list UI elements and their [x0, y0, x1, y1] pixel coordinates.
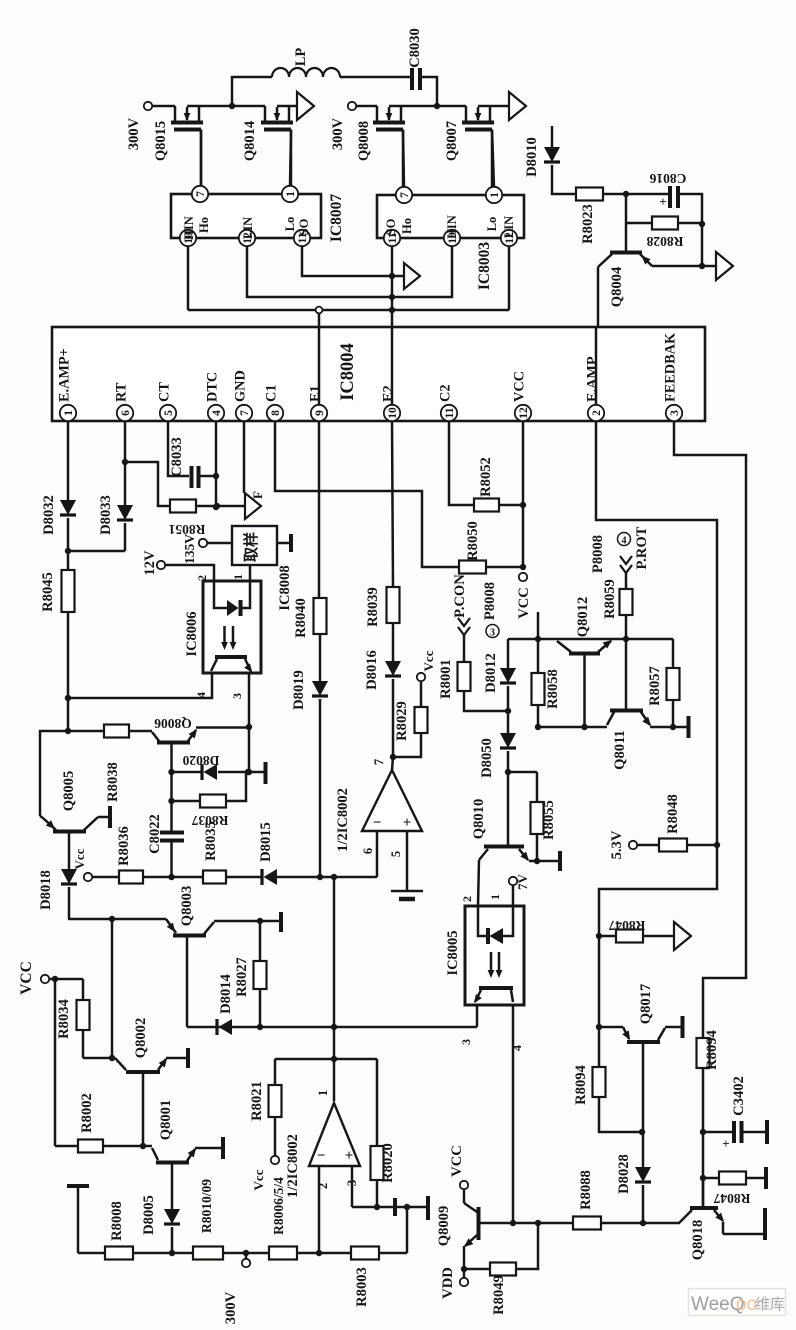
wire [356, 105, 377, 108]
svg-text:R8010/09: R8010/09 [199, 1179, 214, 1233]
svg-text:4: 4 [194, 692, 208, 698]
wire [143, 876, 203, 879]
wire [82, 1030, 85, 1058]
wire [340, 76, 411, 79]
wire [40, 816, 43, 818]
terminal Vcc (op-amp1) [417, 650, 436, 681]
svg-text:IC8006: IC8006 [184, 611, 200, 656]
node [510, 1220, 516, 1226]
node [535, 724, 541, 730]
wire [512, 885, 515, 906]
wire [68, 887, 71, 919]
wire [643, 935, 674, 938]
pin 2 (E.AMP) of IC8004 [585, 356, 605, 421]
wire pin3 IC8005 [459, 1005, 477, 1045]
transistor Q8001 [152, 1100, 199, 1163]
wire [98, 816, 109, 819]
diode D8018 [38, 869, 77, 910]
ground bar [264, 762, 268, 784]
label Lo b [485, 217, 499, 232]
wire pin4 IC8005 [510, 1005, 524, 1223]
svg-text:SO: SO [297, 218, 311, 235]
pin 7 (Ho) of IC8007 [192, 186, 208, 202]
svg-text:R8058: R8058 [545, 669, 561, 709]
node [461, 1266, 467, 1272]
transistor Q8005 [43, 771, 98, 832]
svg-text:12V: 12V [142, 550, 158, 576]
resistor R8039 [365, 587, 400, 627]
wire gate Q8015 [200, 130, 203, 187]
wire [702, 1068, 705, 1207]
resistor R8010/09 [193, 1179, 223, 1260]
svg-text:Q8002: Q8002 [133, 1018, 149, 1059]
resistor R8021 [249, 1059, 282, 1121]
transistor Q8008 [356, 106, 405, 188]
wire op1 out [392, 757, 393, 770]
wire [277, 542, 290, 545]
ground bar [426, 1196, 430, 1220]
svg-text:R8047: R8047 [713, 1191, 750, 1206]
capacitor C3402 [703, 1076, 765, 1151]
wire [601, 1222, 680, 1225]
wire [247, 246, 390, 297]
wire [507, 639, 510, 668]
terminal VCC (Q8009) [449, 1145, 468, 1189]
resistor R8037 [172, 795, 229, 829]
svg-text:D8032: D8032 [41, 495, 57, 535]
svg-text:D8028: D8028 [616, 1154, 632, 1194]
label P8008-4 P.ROT [590, 526, 650, 573]
block 取样 (IC8008) [232, 526, 277, 565]
svg-text:D8014: D8014 [218, 973, 234, 1013]
ground bar [687, 716, 691, 738]
wire [172, 771, 202, 774]
wire [678, 222, 702, 225]
wire [319, 699, 322, 877]
node [109, 916, 115, 922]
wire [200, 475, 216, 478]
terminal 300V (bottom) [223, 1253, 250, 1324]
watermark WeeQoo [689, 1289, 786, 1316]
wire [352, 1206, 428, 1209]
resistor R8051 [168, 500, 205, 538]
svg-text:2: 2 [460, 896, 474, 902]
svg-text:D8012: D8012 [483, 653, 499, 693]
svg-text:R8094: R8094 [573, 1064, 589, 1104]
arrow out (node A side) [297, 92, 314, 120]
svg-text:oo: oo [736, 1294, 757, 1315]
pin 8 (C1) of IC8004 [264, 385, 284, 422]
svg-text:135V: 135V [182, 534, 197, 564]
wire [187, 105, 232, 108]
svg-text:4: 4 [622, 536, 627, 547]
svg-text:D8020: D8020 [182, 753, 219, 768]
svg-text:Q8010: Q8010 [471, 799, 487, 840]
svg-text:HIN: HIN [182, 216, 196, 240]
pin 6 (RT) of IC8004 [114, 382, 134, 421]
wire [392, 623, 395, 661]
svg-text:Q8008: Q8008 [356, 121, 372, 161]
svg-text:R8020: R8020 [380, 1143, 396, 1183]
transistor Q8006 [152, 716, 200, 743]
svg-text:CT: CT [157, 382, 173, 402]
label Ho [197, 217, 211, 233]
terminal 5.3V [609, 830, 637, 859]
wire [297, 1252, 351, 1255]
svg-text:3: 3 [669, 410, 681, 416]
wire [186, 937, 189, 1027]
svg-text:维库: 维库 [755, 1296, 785, 1313]
resistor R8008 [105, 1201, 133, 1259]
wire [507, 751, 510, 772]
node [109, 1055, 115, 1061]
svg-text:P.CON: P.CON [452, 574, 468, 618]
svg-text:−: − [373, 815, 382, 831]
svg-text:R8050: R8050 [465, 521, 481, 561]
ground bar (IC8008) [289, 534, 293, 552]
pin 7 (Ho) of IC8003 [396, 187, 412, 203]
wire [463, 635, 466, 662]
node [535, 636, 541, 642]
wire [538, 726, 607, 729]
svg-text:FEEDBAK: FEEDBAK [663, 332, 679, 402]
resistor R8023 [576, 188, 603, 244]
svg-text:E1: E1 [308, 385, 324, 402]
svg-text:VDD: VDD [440, 1267, 456, 1299]
pin 11 (SO) of IC8003 [384, 230, 400, 246]
node [714, 842, 720, 848]
wire pin9 down [318, 421, 321, 598]
wire [376, 1180, 379, 1207]
wire [333, 877, 336, 1101]
pin 4 (DTC) of IC8004 [205, 372, 225, 421]
chevrons P.CON [458, 618, 470, 635]
resistor R8027 [234, 921, 267, 997]
svg-text:VCC: VCC [516, 587, 532, 618]
resistor R8020 [371, 1059, 397, 1183]
transistor Q8004 [598, 253, 652, 308]
svg-text:R8028: R8028 [646, 234, 683, 249]
svg-text:Q8012: Q8012 [575, 597, 591, 638]
wire EAMP inside [595, 328, 598, 405]
svg-text:7: 7 [239, 410, 251, 416]
resistor R8055 [531, 772, 558, 840]
svg-text:P.ROT: P.ROT [634, 526, 650, 569]
svg-text:P8008: P8008 [590, 535, 606, 573]
node [246, 769, 252, 775]
wire [486, 566, 523, 569]
label Ho b [400, 218, 414, 234]
svg-text:−: − [317, 1148, 326, 1164]
wire [392, 679, 395, 757]
svg-text:1: 1 [489, 192, 501, 198]
svg-text:8: 8 [270, 410, 282, 416]
resistor R8038 [104, 725, 129, 802]
svg-text:1: 1 [316, 1090, 330, 1096]
wire [111, 919, 114, 1058]
label HIN [182, 216, 196, 240]
wire [67, 612, 70, 731]
svg-text:Q8011: Q8011 [612, 730, 628, 770]
terminal VCC (left) [18, 961, 49, 995]
ground cap (op1 plus) [391, 891, 423, 899]
svg-text:D8019: D8019 [291, 670, 307, 710]
resistor R8028 [646, 217, 683, 250]
svg-text:D8033: D8033 [98, 495, 114, 535]
svg-text:R8038: R8038 [105, 762, 121, 802]
LED inside IC8005 [478, 906, 513, 944]
wire [393, 733, 421, 757]
diode D8005 [141, 1195, 180, 1235]
pin 1 (Lo) of IC8003 [486, 187, 502, 203]
svg-text:取样: 取样 [242, 532, 260, 562]
svg-text:7V: 7V [515, 873, 530, 890]
diode D8010 [524, 137, 560, 177]
ground tee (rail left) [67, 1186, 89, 1253]
svg-text:IC8007: IC8007 [328, 194, 345, 242]
node [169, 1250, 175, 1256]
terminal VCC [516, 573, 532, 619]
wire [218, 771, 264, 774]
svg-text:10: 10 [387, 407, 399, 419]
wire pin3 down [674, 421, 746, 1038]
node [168, 798, 174, 804]
node [505, 769, 511, 775]
resistor R8059 [602, 579, 633, 619]
wire base Q8005 [68, 833, 71, 869]
svg-text:6: 6 [361, 848, 375, 854]
wire [508, 246, 511, 310]
svg-text:VCC: VCC [512, 371, 528, 402]
capacitor C8033 [169, 437, 199, 488]
wire [274, 1117, 277, 1156]
svg-text:P8008: P8008 [482, 582, 498, 620]
wire [536, 834, 539, 861]
svg-text:9: 9 [314, 410, 326, 416]
resistor R8040 [293, 598, 327, 638]
node [639, 1129, 645, 1135]
svg-text:SO: SO [384, 218, 398, 235]
wire [507, 686, 510, 733]
wire [226, 876, 261, 879]
wire op1 plus [406, 831, 409, 891]
transistor Q8012 [557, 597, 614, 727]
svg-text:R8094: R8094 [704, 1029, 720, 1069]
wire [508, 638, 673, 641]
svg-text:Vcc: Vcc [72, 848, 87, 869]
IC IC8004 body [52, 327, 705, 421]
svg-text:7: 7 [372, 759, 386, 765]
svg-text:C8022: C8022 [147, 814, 163, 854]
svg-text:Vcc: Vcc [251, 1169, 266, 1190]
wire E2 inside [391, 328, 394, 405]
wire [552, 165, 576, 194]
resistor R8034 [56, 979, 90, 1039]
wire [248, 727, 251, 772]
node [640, 1220, 646, 1226]
IC IC8007 body [171, 194, 345, 242]
terminal 12V [142, 550, 165, 576]
node [65, 695, 71, 701]
svg-text:Q8009: Q8009 [436, 1206, 452, 1247]
ground bar [765, 1120, 769, 1144]
pin 12 (LIN) of IC8007 [239, 230, 255, 246]
wire op2 minus [318, 1166, 321, 1253]
node [505, 708, 511, 714]
label Lo [283, 217, 297, 232]
svg-text:C2: C2 [438, 385, 454, 402]
wire [678, 194, 702, 266]
svg-text:R8088: R8088 [578, 1170, 594, 1210]
svg-text:+: + [722, 1136, 729, 1151]
label pin2 IC8006 [195, 575, 209, 581]
junction circle E1 [316, 307, 323, 314]
node B [434, 103, 440, 109]
wire base Q8006 [129, 730, 152, 733]
svg-text:E.AMP+: E.AMP+ [57, 348, 73, 402]
node [65, 548, 71, 554]
wire [207, 542, 232, 545]
label pins IC8005 [460, 894, 502, 902]
svg-text:5: 5 [163, 410, 175, 416]
svg-text:3: 3 [490, 628, 495, 639]
chevrons P.ROT [620, 556, 632, 573]
wire [195, 1147, 221, 1150]
wire [508, 771, 537, 774]
wire pin8 down [275, 421, 459, 567]
svg-text:5: 5 [389, 851, 403, 857]
svg-text:R8057: R8057 [647, 666, 663, 706]
wire pin11 down [449, 421, 474, 505]
wire pin6 down [124, 421, 127, 462]
wire [650, 726, 687, 729]
svg-text:C3402: C3402 [731, 1076, 747, 1116]
svg-text:HIN: HIN [445, 215, 459, 239]
resistor R8047 (protect) [599, 918, 645, 943]
diode D8014 [217, 973, 234, 1035]
svg-text:GND: GND [233, 370, 249, 402]
svg-text:D8010: D8010 [524, 137, 540, 177]
svg-text:Q8003: Q8003 [179, 886, 195, 927]
wire [232, 105, 265, 108]
wire [420, 77, 437, 106]
wire [166, 1057, 186, 1060]
svg-text:VCC: VCC [18, 961, 35, 995]
transistor Q8018 [679, 1208, 727, 1260]
svg-text:R8006/5/4: R8006/5/4 [271, 1177, 286, 1235]
node [670, 724, 676, 730]
wire [626, 222, 652, 225]
wire [277, 105, 297, 108]
node [168, 769, 174, 775]
svg-text:R8001: R8001 [438, 659, 454, 699]
node [331, 1056, 337, 1062]
wire [625, 573, 628, 589]
wire pin12 down [522, 421, 525, 567]
wire gate Q8014 [290, 130, 291, 187]
resistor R8029 [394, 701, 428, 741]
wire [420, 681, 423, 707]
svg-text:+: + [659, 194, 666, 209]
resistor R8001 [438, 659, 471, 699]
wire collector Q8006 down [170, 744, 173, 801]
resistor R8036 [116, 826, 143, 883]
transistor Q8002 [115, 1018, 170, 1072]
svg-text:Ho: Ho [400, 218, 414, 234]
node [213, 473, 219, 479]
LED inside IC8006 [214, 581, 250, 616]
svg-text:R8029: R8029 [394, 701, 410, 741]
node [623, 636, 629, 642]
svg-text:R8045: R8045 [40, 572, 56, 612]
svg-text:3: 3 [459, 1039, 473, 1045]
node [257, 918, 263, 924]
node [596, 1024, 602, 1030]
pin 10 (E2) of IC8004 [381, 385, 401, 421]
pin 11 (C2) of IC8004 [438, 385, 458, 422]
svg-text:R8036: R8036 [116, 826, 132, 866]
wire E2 up [391, 310, 394, 327]
wire [277, 876, 377, 879]
resistor R8035 [203, 821, 226, 883]
wire [702, 1178, 705, 1206]
node [699, 221, 705, 227]
diode D8016 [364, 650, 401, 690]
diode D8020 [182, 753, 219, 780]
ground bar [279, 912, 283, 932]
node [596, 933, 602, 939]
pin 11 (SO) of IC8007 [294, 230, 310, 246]
wire [625, 615, 628, 639]
resistor R8094a [573, 1064, 606, 1104]
svg-text:Q8007: Q8007 [444, 121, 460, 161]
svg-text:R8040: R8040 [293, 598, 309, 638]
transistor Q8011 [607, 711, 654, 770]
svg-text:Vcc: Vcc [421, 650, 436, 671]
wire gate Q8008 [403, 130, 404, 188]
node [246, 724, 252, 730]
diode D8012 [483, 653, 516, 693]
wire [275, 1058, 377, 1061]
label SO [297, 218, 311, 235]
resistor R8057 [647, 639, 680, 706]
node [65, 728, 71, 734]
svg-text:R8052: R8052 [478, 457, 494, 497]
node [520, 502, 526, 508]
svg-text:1/2IC8002: 1/2IC8002 [285, 1134, 301, 1198]
resistor R8050 [459, 521, 486, 573]
svg-text:C8033: C8033 [169, 437, 185, 477]
node [700, 1175, 706, 1181]
wire [625, 194, 628, 251]
wire pin3 IC8006 [230, 673, 249, 727]
svg-text:R8039: R8039 [365, 587, 381, 627]
wire [54, 979, 57, 1146]
svg-text:Ho: Ho [197, 217, 211, 233]
wire [406, 1207, 409, 1253]
terminal Vcc (op-amp2) [251, 1156, 279, 1191]
ground bar [221, 1137, 225, 1159]
diode D8050 [479, 733, 516, 778]
wire [687, 844, 717, 847]
wire [226, 772, 246, 801]
svg-text:Q8004: Q8004 [609, 266, 625, 307]
svg-text:Q8017: Q8017 [638, 984, 654, 1025]
wire pin2 down [596, 421, 717, 1132]
svg-text:300V: 300V [223, 1291, 239, 1324]
node [389, 307, 395, 313]
arrow F [245, 491, 265, 519]
